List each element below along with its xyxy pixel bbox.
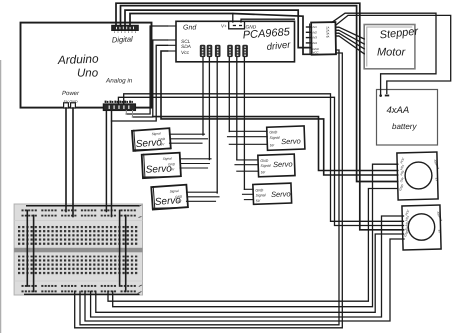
- wire PCA header5 down to servo S5: [236, 57, 238, 160]
- wire driver VCC down to bus b6: [75, 53, 343, 328]
- svg-text:4A: 4A: [326, 34, 330, 38]
- svg-text:Signal: Signal: [269, 136, 279, 140]
- joystick module J1: [395, 152, 441, 200]
- wire servo S4 gnd: [229, 130, 267, 132]
- wire driver top to battery minus rail (diag2): [336, 15, 451, 93]
- wire driver out 4A to stepper: [339, 36, 364, 54]
- wire PCA Vcc left-down thick line B to J1 VRy: [161, 51, 398, 175]
- svg-text:Gnd: Gnd: [183, 24, 197, 32]
- wire GND rail run along breadboard bottom: [24, 293, 140, 295]
- header hole dots: [202, 46, 246, 56]
- svg-text:GND: GND: [398, 183, 405, 191]
- wire PCA header6 down to servo S6: [243, 57, 245, 189]
- wire bus b2 breadboard to J1 VCC: [113, 164, 398, 307]
- svg-text:V+: V+: [221, 24, 227, 29]
- svg-text:IN1: IN1: [313, 25, 318, 29]
- wire PCA header1 down to servo S1: [202, 57, 204, 135]
- servo S3 (left col bottom): [150, 184, 188, 210]
- svg-text:SDA: SDA: [181, 44, 191, 50]
- svg-text:Signal: Signal: [255, 193, 265, 197]
- svg-text:Arduino: Arduino: [57, 52, 100, 67]
- wire servo S3 5v: [187, 200, 216, 202]
- svg-text:Servo: Servo: [271, 189, 291, 199]
- battery 4xAA BT1: [377, 90, 438, 146]
- svg-text:5V: 5V: [256, 199, 261, 203]
- svg-text:IN2: IN2: [313, 30, 318, 34]
- wire breadboard left jumper 2: [33, 215, 35, 291]
- node A3 riser: [132, 111, 134, 118]
- wire bus b3 breadboard to J2 GND: [96, 234, 404, 312]
- svg-text:5V: 5V: [177, 200, 182, 204]
- svg-text:5V: 5V: [170, 167, 175, 171]
- svg-text:Signal: Signal: [152, 132, 161, 137]
- svg-text:Signal: Signal: [163, 156, 172, 160]
- wire PCA SCL left-down to A3 riser: [133, 40, 168, 117]
- svg-text:VCC: VCC: [404, 208, 411, 216]
- wire A4 riser to J2 VRx: [124, 94, 404, 222]
- breadboard main grid holes: [18, 226, 139, 276]
- svg-text:IN3: IN3: [313, 36, 318, 40]
- wire servo S4 signal: [228, 136, 268, 138]
- wire servo S5 signal: [235, 164, 258, 166]
- svg-text:Servo: Servo: [273, 159, 293, 169]
- wire servo S6 gnd: [244, 188, 253, 190]
- svg-text:Stepper: Stepper: [379, 25, 420, 41]
- svg-text:Signal: Signal: [169, 189, 178, 194]
- wire 5V pin down into breadboard top rail: [65, 108, 67, 212]
- svg-text:GND: GND: [269, 130, 278, 134]
- joystick module J2: [400, 205, 444, 250]
- wire V+ terminal pin up: [232, 14, 234, 23]
- svg-text:VRx: VRx: [399, 164, 405, 171]
- PCA servo pin headers group1: [200, 45, 221, 57]
- wire PCA SDA left-down to A1/breadboard: [112, 45, 168, 121]
- wire driver out 3A to stepper: [339, 33, 364, 49]
- servo S4 (right col top): [267, 126, 305, 150]
- svg-text:GND: GND: [168, 162, 176, 166]
- stepper driver module U2: [306, 22, 339, 55]
- breadboard top power rail holes: [22, 209, 139, 216]
- power pins 5V GND: [64, 103, 76, 108]
- Arduino Uno board U1: [21, 23, 152, 108]
- wire servo S6 signal: [243, 193, 254, 195]
- wire breadboard right jumper 2: [125, 215, 127, 291]
- servo S1 (left col top): [131, 127, 171, 152]
- wire servo S2 signal: [180, 158, 211, 160]
- wire A3 riser to J2 VRy wait A3 up (w97): [118, 97, 403, 225]
- wire PCA Gnd left-down to A2 riser: [126, 26, 167, 114]
- wire servo S1 5v: [170, 142, 203, 144]
- svg-text:Digital: Digital: [112, 34, 134, 44]
- breadboard center channel: [14, 248, 142, 253]
- wire 5V rail run along breadboard top: [26, 205, 140, 207]
- node A2 riser: [125, 111, 127, 115]
- svg-text:GND: GND: [175, 195, 183, 200]
- digital header J-digital: [112, 25, 138, 33]
- svg-text:Power: Power: [62, 90, 80, 97]
- wire driver top to battery plus rail (diag1): [332, 13, 436, 94]
- svg-text:VCC: VCC: [399, 156, 406, 164]
- wire servo S5 gnd: [237, 159, 258, 161]
- svg-text:GND: GND: [158, 137, 166, 142]
- wire servo S2 5v: [180, 167, 208, 169]
- svg-text:Signal: Signal: [260, 164, 270, 168]
- svg-text:5V: 5V: [261, 170, 266, 174]
- wire bus b1 breadboard to J1 GND: [108, 189, 398, 302]
- stepper motor M1: [364, 25, 415, 69]
- frame left edge: [0, 60, 2, 333]
- wire servo S1 gnd: [170, 138, 208, 140]
- wire A0 down to breadboard top rail: [105, 111, 107, 212]
- wire servo S5 5v: [237, 170, 258, 172]
- wire driver out 1A to stepper: [339, 27, 364, 39]
- svg-text:Uno: Uno: [77, 68, 99, 80]
- wire servo S4 5v: [229, 143, 267, 145]
- svg-text:SCL: SCL: [181, 39, 191, 45]
- wire PCA header3 down to servo S3: [216, 57, 218, 193]
- breadboard body: [14, 204, 142, 295]
- wire GND terminal stub: [241, 19, 294, 22]
- svg-text:Vcc: Vcc: [181, 50, 190, 56]
- wire breadboard left jumper 1: [26, 210, 28, 286]
- PCA left pin ticks: [168, 26, 177, 51]
- wire digital D3 to J1 SW (w2): [121, 6, 398, 182]
- wire bus b5 breadboard to J2 bottom pin: [85, 239, 404, 321]
- svg-text:Motor: Motor: [377, 47, 406, 59]
- wire PCA header2 down to servo S2: [208, 57, 210, 159]
- svg-text:GND: GND: [260, 159, 269, 163]
- wire A1 down to breadboard top rail row2: [111, 111, 113, 217]
- analog header J-analog: [103, 101, 135, 111]
- svg-text:5V: 5V: [270, 143, 275, 147]
- wire servo S2 gnd: [181, 163, 210, 165]
- wire digital D2 to J2 VRy (w1): [116, 3, 404, 230]
- svg-text:Analog in: Analog in: [105, 78, 133, 85]
- breadboard corner marks: [138, 205, 142, 294]
- wire driver out 2A to stepper: [339, 30, 364, 44]
- wire digital D5 / V+ rail to driver IN4 (w4): [130, 14, 311, 55]
- wire bus b4 breadboard to J2 VCC: [91, 216, 404, 317]
- wire thick line A to J1 VRx: [153, 117, 398, 171]
- svg-text:4xAA: 4xAA: [387, 105, 410, 116]
- PCA servo pin headers group2: [227, 45, 248, 57]
- svg-text:driver: driver: [266, 39, 292, 53]
- svg-text:Joystick: Joystick: [436, 211, 444, 223]
- breadboard bottom power rail holes: [22, 285, 139, 293]
- svg-text:5V: 5V: [160, 142, 165, 146]
- wire driver GND down to bus b7: [80, 50, 339, 325]
- svg-text:VCC: VCC: [313, 50, 320, 54]
- servo S2 (left col mid): [141, 152, 182, 179]
- svg-text:Servo: Servo: [281, 136, 301, 146]
- wire servo S6 5v: [244, 199, 253, 201]
- wire GND pin down into breadboard top rail: [72, 108, 74, 217]
- V+ GND terminal block on PCA: [229, 22, 245, 29]
- wire digital D4 to driver IN3 (w3): [125, 10, 311, 48]
- wire servo S3 signal: [187, 191, 218, 193]
- svg-text:GND: GND: [246, 25, 257, 31]
- wire servo S3 gnd: [187, 196, 219, 198]
- svg-text:Joystick: Joystick: [433, 159, 441, 171]
- PCA9685 driver board U3: [176, 21, 295, 62]
- wire servo S1 signal: [170, 133, 205, 135]
- svg-text:GND: GND: [255, 188, 264, 192]
- wire breadboard right jumper 1: [119, 210, 121, 286]
- wire PCA header4 down to servo S4: [228, 57, 230, 131]
- servo S6 (right col bottom): [253, 183, 292, 204]
- svg-text:battery: battery: [392, 122, 417, 131]
- svg-text:IN4: IN4: [313, 41, 318, 45]
- servo S5 (right col mid): [258, 154, 295, 177]
